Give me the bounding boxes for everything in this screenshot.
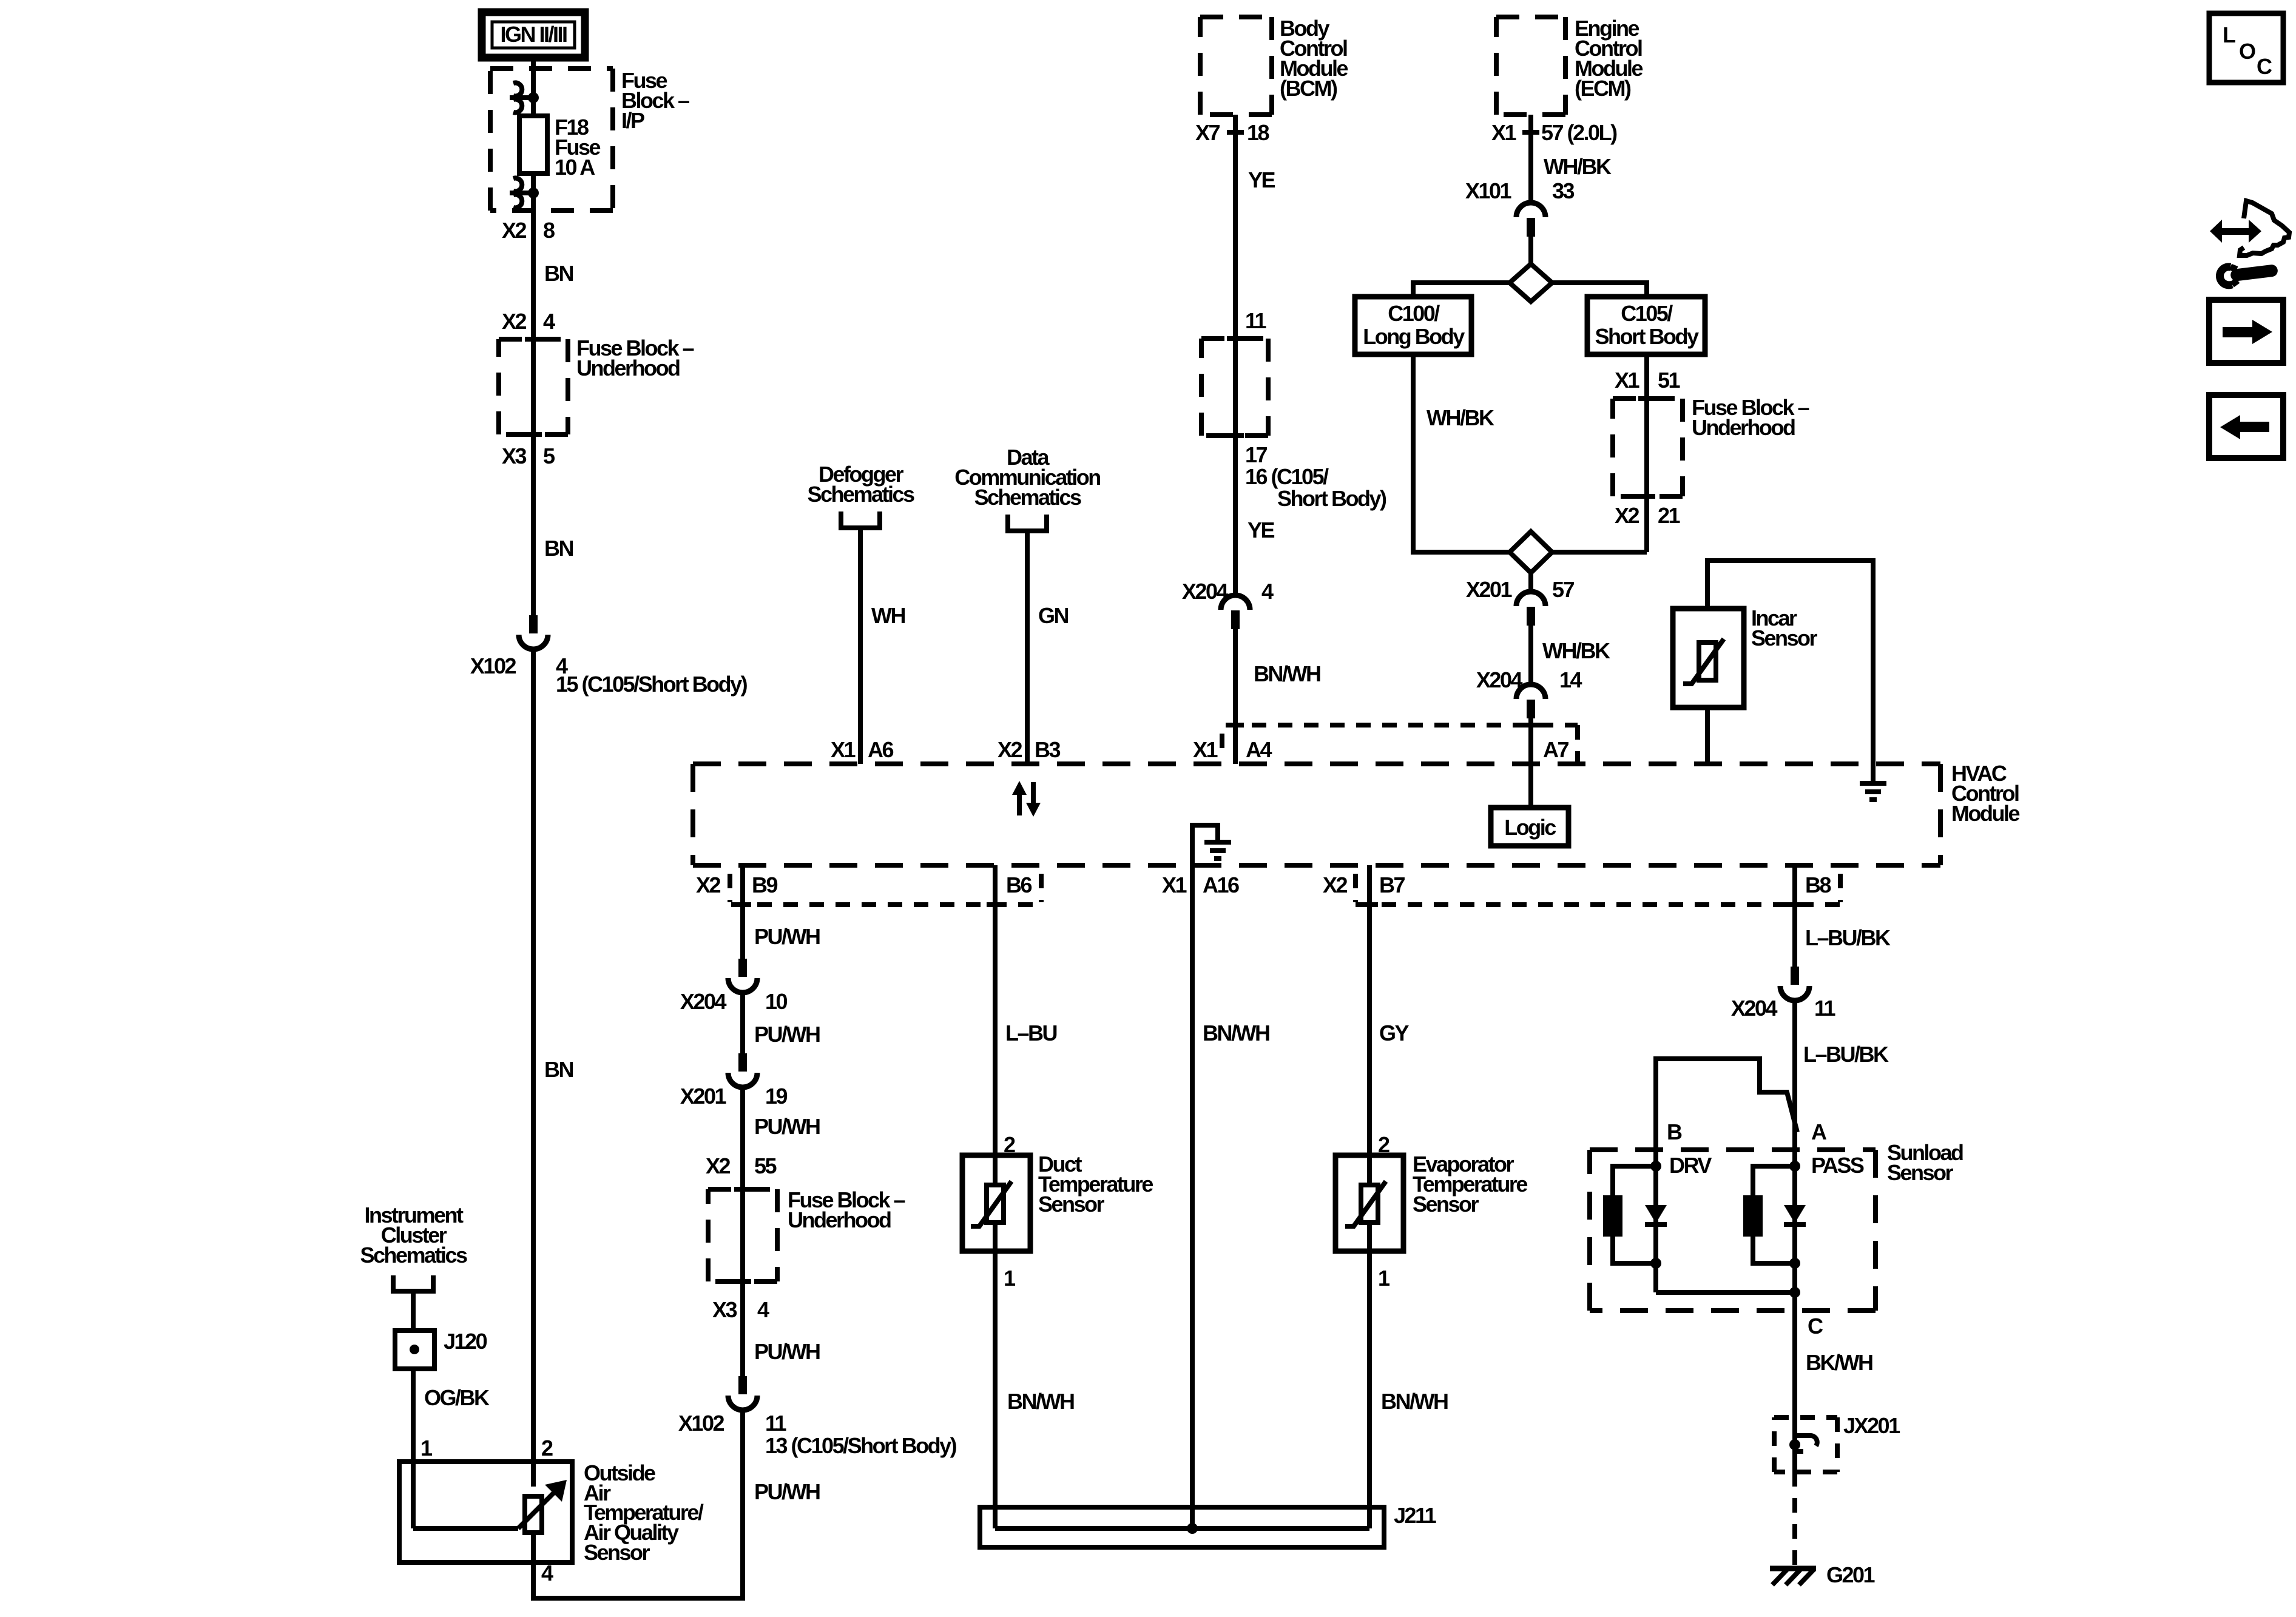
svg-text:C100/: C100/ (1388, 301, 1440, 326)
svg-text:PU/WH: PU/WH (754, 924, 820, 949)
svg-text:X102: X102 (678, 1411, 724, 1436)
wire GN to HVAC B3 (1025, 531, 1030, 764)
connector X102 pin 11 (728, 1376, 757, 1410)
wire sunload top link B to A (1656, 1059, 1797, 1166)
label X204 | 4 (1182, 579, 1274, 604)
svg-text:Short Body: Short Body (1595, 324, 1699, 349)
duct sensor box (962, 1155, 1030, 1251)
wire diamond to C100 (1413, 283, 1510, 297)
wire ECM to X101 (1528, 115, 1533, 202)
connector X204 pin 14 (1516, 684, 1545, 718)
fuse clip top (510, 83, 539, 113)
svg-text:Sensor: Sensor (1751, 626, 1818, 650)
svg-text:IGN II/III: IGN II/III (500, 22, 567, 47)
evaporator thermistor element (1345, 1181, 1386, 1226)
svg-text:57: 57 (1552, 577, 1575, 602)
wire incar ground stub (1871, 764, 1876, 783)
svg-text:X2: X2 (998, 737, 1022, 762)
connector box C100/Long Body (1355, 297, 1471, 354)
svg-text:X7: X7 (1195, 120, 1220, 145)
svg-text:Underhood: Underhood (1692, 415, 1795, 440)
label Body Control Module (BCM) (1280, 16, 1348, 101)
svg-text:A4: A4 (1246, 737, 1272, 762)
wire sensor pin4 to bottom link (531, 1533, 536, 1598)
icon back arrow box (2209, 395, 2283, 458)
wire WH to HVAC A6 (858, 528, 863, 764)
label X201 | 19 (680, 1084, 788, 1109)
connector X201 pin 19 (728, 1053, 757, 1087)
svg-text:X3: X3 (502, 444, 527, 468)
pin separator dash A4 (1220, 734, 1224, 760)
svg-text:8: 8 (543, 218, 555, 243)
svg-text:X201: X201 (680, 1084, 727, 1109)
wire B8 down from HVAC (1792, 865, 1797, 967)
wire BCM to connector box (1233, 115, 1238, 595)
incar thermistor element (1683, 639, 1724, 684)
svg-text:57 (2.0L): 57 (2.0L) (1541, 120, 1617, 145)
wire J120 to sensor pin 1 (411, 1369, 416, 1528)
dashed wire JX201 to G201 (1792, 1472, 1797, 1566)
svg-text:X2: X2 (706, 1153, 731, 1178)
wire X102 down to bottom link (740, 1410, 745, 1601)
svg-text:L–BU/BK: L–BU/BK (1805, 925, 1891, 950)
svg-text:Short Body): Short Body) (1277, 486, 1386, 511)
svg-text:B8: B8 (1805, 873, 1831, 897)
wire through fuse (531, 98, 536, 193)
icon adjust (double arrow, glove, wrench) (2210, 201, 2289, 286)
svg-text:X1: X1 (1491, 120, 1517, 145)
svg-text:Sensor: Sensor (1038, 1192, 1105, 1217)
pin X2 55 (706, 1153, 777, 1178)
svg-text:A: A (1811, 1119, 1827, 1144)
svg-text:11: 11 (765, 1411, 787, 1436)
wire incar top frame (1707, 561, 1873, 764)
svg-text:1: 1 (1378, 1266, 1390, 1291)
svg-text:PU/WH: PU/WH (754, 1022, 820, 1047)
svg-text:X2: X2 (502, 218, 527, 243)
svg-text:C: C (2257, 54, 2272, 79)
label X201 | 57 (1466, 577, 1575, 602)
svg-text:X204: X204 (680, 989, 727, 1014)
connector X204 pin 4 (1221, 595, 1250, 629)
svg-text:17: 17 (1245, 442, 1268, 467)
icon LOC box (2209, 13, 2283, 83)
resistor PASS branch (1753, 1166, 1795, 1195)
svg-text:PASS: PASS (1811, 1153, 1864, 1178)
wire to HVAC A4 (1233, 629, 1238, 764)
inline connector dashed box (1201, 339, 1268, 436)
svg-text:B6: B6 (1006, 873, 1032, 897)
diode PASS (1792, 1166, 1797, 1292)
svg-text:(BCM): (BCM) (1280, 76, 1337, 101)
connector X101 pin 33 (1516, 203, 1545, 237)
sensor element rect (525, 1496, 542, 1533)
wire X204 to Logic (1528, 718, 1533, 808)
incar sensor box (1673, 609, 1744, 707)
svg-text:1: 1 (420, 1436, 433, 1460)
svg-text:4: 4 (543, 309, 555, 334)
tick pin 17 (1227, 435, 1244, 436)
tick X2 55 (734, 1189, 751, 1190)
label F18 Fuse 10 A (555, 115, 601, 180)
pin X2 B7 (1323, 873, 1405, 897)
svg-text:X101: X101 (1465, 178, 1512, 203)
label HVAC Control Module (1951, 761, 2019, 826)
svg-text:WH/BK: WH/BK (1542, 638, 1610, 663)
label Outside Air Temperature/Air Quality Sensor (584, 1460, 704, 1565)
svg-text:X201: X201 (1466, 577, 1513, 602)
icon forward arrow box (2209, 300, 2283, 363)
logic box (1491, 808, 1568, 846)
wire IGN to fuse block I/P (531, 58, 536, 98)
fuse F18 10 A (519, 116, 547, 174)
label X101 | 33 (1465, 178, 1575, 203)
svg-text:13 (C105/Short Body): 13 (C105/Short Body) (765, 1433, 957, 1458)
svg-text:G201: G201 (1826, 1562, 1876, 1587)
svg-text:X2: X2 (1615, 503, 1639, 528)
fuse block underhood dashed box (right) (1613, 399, 1683, 496)
tick X3 5 (525, 434, 542, 435)
fuse block I/P dashed box (490, 69, 613, 211)
svg-text:2: 2 (541, 1436, 553, 1460)
label X102 | 11 | 13 (C105/Short Body) (678, 1411, 957, 1458)
tick X2 21 (1638, 496, 1655, 497)
svg-text:A7: A7 (1543, 737, 1568, 762)
tick B7 sub row (1361, 904, 1378, 905)
label X102 | 4 | 15 (C105/Short Body) (470, 653, 748, 697)
svg-text:L–BU: L–BU (1005, 1021, 1057, 1045)
pin X3 5 (502, 444, 555, 468)
wire duct sensor to J211 (993, 1223, 998, 1528)
svg-text:WH/BK: WH/BK (1427, 405, 1494, 430)
evaporator sensor box (1335, 1155, 1403, 1251)
svg-text:YE: YE (1248, 167, 1275, 192)
svg-text:X3: X3 (712, 1297, 737, 1322)
svg-text:18: 18 (1247, 120, 1269, 145)
svg-text:10 A: 10 A (555, 155, 595, 180)
svg-text:11: 11 (1814, 996, 1836, 1021)
svg-text:1: 1 (1004, 1266, 1016, 1291)
svg-text:PU/WH: PU/WH (754, 1339, 820, 1364)
wire sunload bottom link (1656, 1290, 1795, 1295)
pin X2 B9 (696, 873, 778, 897)
connector X102 pin 4 (519, 615, 548, 649)
svg-text:16 (C105/: 16 (C105/ (1245, 464, 1329, 489)
resistor DRV branch (1613, 1166, 1656, 1195)
junction dot PASS (1789, 1161, 1800, 1172)
internal ground A16 (1192, 825, 1231, 865)
wire C105 leg to merge diamond (1552, 550, 1647, 555)
wire bracket to J120 (411, 1291, 416, 1331)
sunload sensor dashed box (1590, 1150, 1876, 1311)
junction dot DRV (1650, 1161, 1661, 1172)
svg-text:19: 19 (765, 1084, 788, 1109)
wire incar sensor to HVAC (1705, 707, 1710, 764)
splice J120 (395, 1331, 434, 1369)
junction dot PASS bottom (1789, 1258, 1800, 1269)
wire C105 to fuse block underhood (1644, 354, 1649, 552)
svg-text:C105/: C105/ (1621, 301, 1673, 326)
sensor internal wire pin1 to element (413, 1526, 518, 1531)
split diamond (1510, 264, 1552, 302)
svg-text:Sensor: Sensor (1413, 1192, 1479, 1217)
svg-text:C: C (1808, 1314, 1823, 1338)
svg-text:J120: J120 (444, 1329, 487, 1354)
svg-text:Schematics: Schematics (360, 1243, 467, 1268)
svg-text:OG/BK: OG/BK (424, 1385, 490, 1410)
wire C100 to merge diamond (1413, 354, 1511, 552)
pin X2 8 (502, 218, 555, 243)
svg-text:A16: A16 (1203, 873, 1239, 897)
ground G201 (1770, 1568, 1816, 1585)
svg-text:X1: X1 (1162, 873, 1187, 897)
body control module dashed box (1200, 17, 1272, 115)
fuse block underhood dashed box (left) (499, 339, 568, 434)
svg-text:YE: YE (1248, 518, 1275, 542)
label Sunload Sensor (1887, 1140, 1963, 1185)
label 17 / 16 (C105/Short Body) (1245, 442, 1386, 511)
tick X3 4 (734, 1281, 751, 1282)
svg-text:X1: X1 (1615, 368, 1640, 393)
svg-text:JX201: JX201 (1843, 1413, 1900, 1438)
label Instrument Cluster Schematics (360, 1203, 467, 1268)
svg-text:BN/WH: BN/WH (1254, 661, 1320, 686)
tick X2 4 (525, 339, 542, 340)
svg-text:4: 4 (757, 1297, 769, 1322)
svg-text:DRV: DRV (1669, 1153, 1712, 1178)
splice JX201 dashed box (1774, 1417, 1837, 1472)
wire C to JX201 (1792, 1292, 1797, 1472)
tick B6 sub row (987, 904, 1004, 905)
diode DRV (1653, 1166, 1658, 1292)
svg-text:11: 11 (1245, 308, 1267, 333)
pin X7 18 (1195, 120, 1269, 145)
pin X1 A16 (1162, 873, 1239, 897)
svg-text:Module: Module (1951, 801, 2019, 826)
svg-text:5: 5 (543, 444, 555, 468)
tick B9 sub row (734, 904, 751, 905)
wire evaporator sensor to J211 (1367, 1223, 1372, 1528)
svg-text:B7: B7 (1379, 873, 1405, 897)
pin X2 4 (502, 309, 555, 334)
pin X1 51 (1615, 368, 1681, 393)
HVAC raised pin row A4-A7 (1226, 723, 1578, 727)
HVAC box left edge (690, 764, 695, 865)
tick B8 sub row (1786, 904, 1803, 905)
junction dot C node (1789, 1287, 1800, 1298)
wire BN down to outside air sensor (531, 649, 536, 1487)
outside air temperature / air quality sensor box (399, 1462, 572, 1562)
svg-text:(ECM): (ECM) (1575, 76, 1631, 101)
HVAC sub row B9-B6 (731, 902, 1040, 907)
svg-text:L: L (2223, 22, 2235, 47)
svg-text:Schematics: Schematics (807, 482, 914, 507)
label Fuse Block - Underhood (788, 1187, 905, 1232)
HVAC box right edge (1938, 764, 1943, 865)
svg-text:Schematics: Schematics (974, 485, 1081, 510)
label X204 | 14 (1476, 667, 1582, 692)
HVAC box bottom edge (693, 863, 1940, 868)
tick X1 57 (1522, 132, 1539, 133)
svg-text:X204: X204 (1731, 996, 1778, 1021)
label Engine Control Module (ECM) (1575, 16, 1643, 101)
svg-text:14: 14 (1559, 667, 1582, 692)
splice symbol JX201 (1789, 1436, 1817, 1451)
label Data Communication Schematics (954, 445, 1100, 510)
svg-text:BK/WH: BK/WH (1806, 1350, 1872, 1375)
svg-text:BN/WH: BN/WH (1203, 1021, 1269, 1045)
pin X1 57 (2.0L) (1491, 120, 1617, 145)
svg-text:J211: J211 (1394, 1503, 1437, 1528)
svg-text:X204: X204 (1476, 667, 1523, 692)
svg-text:X2: X2 (696, 873, 721, 897)
svg-text:BN: BN (544, 261, 573, 286)
svg-text:GY: GY (1379, 1021, 1410, 1045)
duct thermistor element (971, 1181, 1011, 1226)
svg-text:I/P: I/P (621, 108, 644, 133)
label X204 | 10 (680, 989, 788, 1014)
wire diamond to C105 (1552, 283, 1647, 297)
svg-text:X102: X102 (470, 653, 516, 678)
junction dot DRV bottom (1650, 1258, 1661, 1269)
svg-text:33: 33 (1552, 178, 1575, 203)
pin separator dash B7 (1353, 874, 1358, 902)
tick A4 raised row (1227, 724, 1244, 726)
svg-text:Sensor: Sensor (584, 1540, 650, 1565)
label X204 | 11 (1731, 996, 1836, 1021)
wire A16 to J211 (1190, 865, 1195, 1528)
HVAC box top edge (693, 761, 1940, 766)
HVAC raised row right jog (1575, 725, 1580, 764)
wire X201 to fuse block underhood (740, 1087, 745, 1376)
pin separator dash B9 (728, 874, 732, 902)
svg-text:PU/WH: PU/WH (754, 1479, 820, 1504)
svg-text:4: 4 (541, 1561, 553, 1585)
pin X2 21 (1615, 503, 1681, 528)
svg-text:A6: A6 (868, 737, 893, 762)
label Fuse Block - Underhood (576, 336, 694, 380)
pin X3 4 (712, 1297, 769, 1322)
bracket data communication schematics (1008, 515, 1047, 531)
wire fuse to X102 connector (531, 193, 536, 615)
label Incar Sensor (1751, 606, 1818, 650)
power tag IGN II/III (482, 12, 585, 58)
svg-text:55: 55 (754, 1153, 777, 1178)
svg-text:15 (C105/Short Body): 15 (C105/Short Body) (556, 672, 748, 697)
svg-text:Underhood: Underhood (788, 1207, 891, 1232)
wire X201 to X204 (1528, 626, 1533, 684)
wire bottom link to PU/WH chain (531, 1596, 743, 1601)
svg-text:BN: BN (544, 1057, 573, 1082)
svg-text:4: 4 (1261, 579, 1274, 604)
svg-text:X1: X1 (1193, 737, 1218, 762)
svg-text:Long Body: Long Body (1363, 324, 1465, 349)
pin X1 A4 (1193, 737, 1272, 762)
data direction arrows (1012, 781, 1041, 817)
tick pin 11 (1227, 338, 1244, 339)
bracket defogger schematics (841, 511, 880, 528)
pin separator dash B8 (1838, 874, 1843, 902)
svg-text:21: 21 (1658, 503, 1681, 528)
svg-text:B9: B9 (752, 873, 777, 897)
pin X2 B3 (998, 737, 1061, 762)
connector X204 pin 10 (728, 959, 757, 993)
pin X1 A6 (831, 737, 894, 762)
pin separator dash B6 (1039, 874, 1044, 902)
svg-text:PU/WH: PU/WH (754, 1114, 820, 1139)
svg-text:Sensor: Sensor (1887, 1160, 1954, 1185)
connector X201 pin 57 (1516, 592, 1545, 626)
svg-text:L–BU/BK: L–BU/BK (1803, 1042, 1889, 1067)
svg-text:BN: BN (544, 536, 573, 561)
junction dot J211 (1187, 1523, 1198, 1534)
svg-text:Underhood: Underhood (576, 356, 680, 380)
sensor variable arrow (518, 1491, 556, 1528)
svg-text:Logic: Logic (1504, 815, 1556, 840)
svg-text:BN/WH: BN/WH (1381, 1389, 1448, 1414)
svg-text:X2: X2 (1323, 873, 1348, 897)
tick X1 51 (1638, 398, 1655, 399)
svg-text:GN: GN (1038, 603, 1069, 628)
wire B6 to duct sensor (993, 865, 998, 1185)
wire diamond to X201 (1528, 573, 1533, 591)
svg-text:B3: B3 (1035, 737, 1060, 762)
label Evaporator Temperature Sensor (1413, 1152, 1527, 1217)
svg-text:BN/WH: BN/WH (1007, 1389, 1074, 1414)
wire X204 to X201 (740, 993, 745, 1053)
wire B7 to evaporator sensor (1367, 865, 1372, 1185)
svg-text:O: O (2239, 39, 2255, 64)
wire X204 to sunload A (1792, 1001, 1797, 1166)
svg-text:B: B (1667, 1119, 1682, 1144)
svg-text:51: 51 (1658, 368, 1681, 393)
svg-text:WH: WH (871, 603, 905, 628)
internal ground incar (1860, 783, 1886, 800)
svg-text:10: 10 (765, 989, 788, 1014)
label Defogger Schematics (807, 462, 914, 507)
wire X101 to split diamond (1528, 237, 1533, 267)
connector X204 pin 11 (1780, 967, 1809, 1001)
label Duct Temperature Sensor (1038, 1152, 1153, 1217)
wire B9 down from HVAC (740, 865, 745, 959)
connector box C105/Short Body (1587, 297, 1705, 354)
fuse clip bottom (510, 178, 539, 208)
merge diamond (1510, 532, 1552, 573)
label Fuse Block - I/P (621, 68, 689, 133)
engine control module dashed box (1496, 17, 1565, 115)
svg-text:X1: X1 (831, 737, 856, 762)
tick A7 raised row (1522, 724, 1539, 726)
bracket to instrument cluster schematics (393, 1275, 433, 1291)
label Fuse Block - Underhood (1692, 395, 1809, 440)
svg-text:X2: X2 (502, 309, 527, 334)
fuse block underhood dashed box (middle) (708, 1189, 777, 1281)
svg-text:WH/BK: WH/BK (1544, 154, 1612, 179)
HVAC sub row B7-B8 (1356, 902, 1840, 907)
tick X7 18 (1227, 132, 1244, 133)
